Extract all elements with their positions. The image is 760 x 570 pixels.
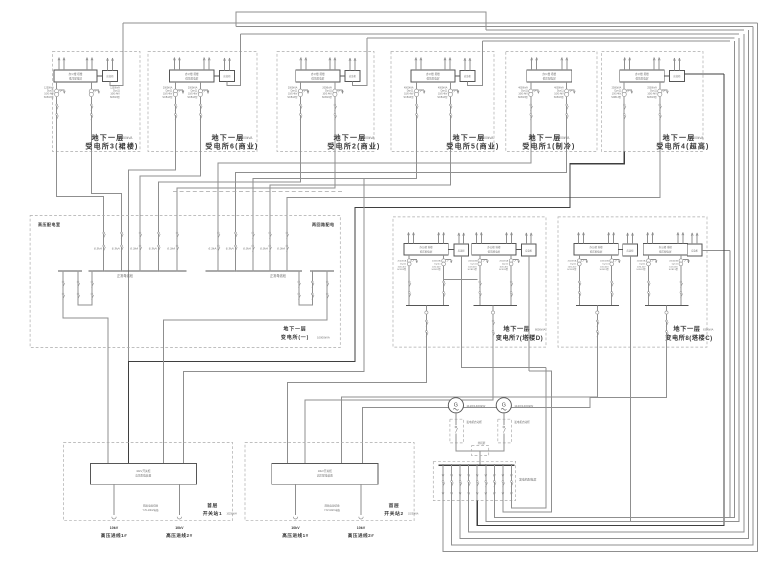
svg-text:2000kVA: 2000kVA [637,260,646,263]
HV room right label [312,221,335,227]
svg-text:SCB13型: SCB13型 [322,95,333,99]
generator G1 [448,398,463,413]
feeder breaker 6.3kA [260,232,271,272]
wire cable from substation to HV feeder [218,152,531,233]
LV bus [576,304,619,306]
generator G2 starter cabinet [498,413,512,443]
feeder arrows of panel U1 [58,58,93,71]
svg-text:10/0.4kV: 10/0.4kV [398,266,407,268]
transformer spec label [669,260,679,272]
incomer riser to bus1 stub [62,270,108,463]
incoming line label 1 [282,526,309,539]
transformer T6b spec label [647,87,658,99]
svg-text:10250kVA: 10250kVA [408,513,419,516]
substation box 2 dashed outline [148,52,257,152]
svg-text:YJV-10kV电缆: YJV-10kV电缆 [143,508,159,512]
riser substation8 bus1 to switch station2 [342,305,600,463]
generator feeder breaker [442,464,445,500]
HV riser wire with isolators box 6 [659,97,662,152]
wire generator feeder loop d2 tie [452,27,753,546]
generator feeder breaker [485,464,488,500]
HV riser wire with isolators box 6 [623,97,626,152]
svg-text:办公楼 塔楼: 办公楼 塔楼 [426,72,440,76]
svg-text:Dyn11: Dyn11 [400,263,407,265]
transformer spec label [468,260,478,272]
generator feeder breaker [468,464,471,500]
feeder breaker 6.3kA [130,232,141,272]
svg-text:低压配电屏: 低压配电屏 [185,76,198,80]
feeder arrows of panel U4 [415,58,451,71]
wire panel to emergency cabinet [455,75,460,77]
wire top feed tie b [486,29,744,31]
svg-text:G: G [454,402,458,408]
svg-text:Dyn11: Dyn11 [639,263,646,265]
transformer T3a spec label [287,87,298,99]
substation 2 name label [205,133,258,151]
emergency cabinet arrows [458,233,465,244]
transformer [679,255,690,305]
generator feeder breaker [493,464,496,500]
generator feeder breaker [451,464,454,500]
emergency cabinet arrows [525,233,532,244]
switch station 2 name label [384,502,419,517]
wire emergency feed substation7 cabinet2 [528,256,530,371]
LV panel rect [404,243,448,255]
svg-text:10kV: 10kV [357,526,366,530]
svg-text:1250kVA: 1250kVA [120,136,134,140]
wire generator feeder loop d7 to box4 [494,41,734,518]
svg-text:受电所6(商业): 受电所6(商业) [205,142,258,151]
svg-text:受电所2(商业): 受电所2(商业) [327,142,380,151]
svg-text:低压配电屏: 低压配电屏 [635,76,648,80]
svg-text:办公楼 塔楼: 办公楼 塔楼 [311,72,325,76]
svg-text:两回路配电: 两回路配电 [312,221,335,227]
svg-text:6.3kA: 6.3kA [243,247,251,251]
svg-text:并机屏: 并机屏 [478,441,486,445]
transformer T6a [622,82,633,97]
HV riser wire with isolators box 1 [90,97,93,152]
svg-text:高压配电装置: 高压配电装置 [135,474,151,478]
svg-text:受电所1(制冷): 受电所1(制冷) [522,142,575,151]
svg-text:办公楼 塔楼: 办公楼 塔楼 [635,72,649,76]
bus section 2 main [206,270,303,272]
substation 1 name label [85,133,138,151]
transformer T2b [198,82,209,97]
switch station 1 name label [203,502,238,517]
transformer T5b [565,82,576,97]
svg-text:变电所7(塔楼D): 变电所7(塔楼D) [496,334,543,342]
svg-text:正常母线段: 正常母线段 [117,273,134,278]
svg-text:SCB13型: SCB13型 [611,95,622,99]
HV riser wire with isolators box 1 [56,97,59,152]
generator G1 starter cabinet [450,413,464,443]
svg-text:Dyn11: Dyn11 [471,263,478,265]
transformer spec label [600,260,610,272]
wire panel-cabinet [618,249,623,251]
svg-text:SCB13型: SCB13型 [287,95,298,99]
panel arrows [475,232,512,243]
svg-text:10/0.4kV: 10/0.4kV [468,266,477,268]
svg-text:10/0.4kV: 10/0.4kV [669,266,678,268]
svg-text:地下一层: 地下一层 [283,326,306,333]
wire cable from substation to HV feeder [57,152,104,233]
LV distribution panel U2 [169,70,214,82]
svg-text:10000kVA: 10000kVA [317,336,330,340]
wire top feed to box4 [483,40,730,42]
svg-text:受电所4(超高): 受电所4(超高) [656,142,709,151]
wire from substation box2 to switch station 1 [129,152,176,362]
substation 8 name label [665,325,713,342]
bus section 2 right stub [310,270,334,272]
svg-text:办公楼 塔楼: 办公楼 塔楼 [185,72,199,76]
switch station 1 inner note [143,504,159,513]
generator G1 rating label [466,404,485,408]
generator feeder breaker [510,464,513,500]
svg-text:YJV-10kV电缆: YJV-10kV电缆 [324,508,340,512]
svg-text:SCB13型: SCB13型 [187,95,198,99]
svg-text:2000kVA: 2000kVA [568,260,577,263]
incoming cable with terminator [293,484,297,519]
generator G1 starter label [466,420,482,424]
transformer [478,255,489,305]
wire bold generator feeder d5 to substation6 [477,74,724,526]
svg-text:地下一层: 地下一层 [673,325,700,333]
svg-text:6.3kA: 6.3kA [167,247,175,251]
incomer riser to bus2 stub [164,270,329,463]
wire top feed tie a [236,26,753,28]
transformer T3b spec label [322,87,333,99]
wire emergency feed substation7 cabinet1 [444,256,546,367]
wire riser substation8 cabinet2 feed [729,251,731,518]
transformer spec label [636,260,646,272]
svg-text:10/0.4kV: 10/0.4kV [432,266,441,268]
switch station 2 inner note [324,504,340,513]
svg-text:2000kVA: 2000kVA [240,136,254,140]
svg-text:10/0.4kV: 10/0.4kV [568,266,577,268]
transformer T3a [298,82,309,97]
svg-text:正常母线段: 正常母线段 [270,273,287,278]
svg-text:应急柜: 应急柜 [223,74,231,78]
HV riser wire with isolators box 2 [175,97,178,152]
transformer T2b spec label [187,87,198,99]
switch station 2 10kV switchgear rect [272,464,378,485]
emergency cabinet arrows box 6 [673,58,680,71]
generator distribution panel dashed outline [433,461,515,500]
svg-text:6.3kA: 6.3kA [94,247,102,251]
feeder arrows of panel U5 [531,58,568,71]
svg-text:首层: 首层 [389,502,400,509]
substation 7 name label [496,325,546,342]
feeder arrows of panel U2 [173,58,210,71]
HV riser wire with isolators box 3 [300,97,303,152]
svg-text:两路电源切换: 两路电源切换 [143,504,159,508]
svg-text:低压配电屏: 低压配电屏 [590,249,603,253]
wire generator feeder loop d6 to box3 [486,38,739,522]
svg-text:10kV: 10kV [175,526,184,530]
wire emergency feed to cabinet [227,34,241,85]
svg-text:高压进线2#: 高压进线2# [348,532,375,539]
svg-text:低压配电屏: 低压配电屏 [420,249,433,253]
feeder breaker 6.3kA [243,232,254,272]
panel arrows [647,232,684,243]
feeder breaker 6.3kA [226,232,237,272]
svg-text:高压配电装置: 高压配电装置 [317,474,333,478]
transformer spec label [431,260,441,272]
svg-text:高压进线1#: 高压进线1# [101,532,128,539]
svg-text:变电所8(塔楼C): 变电所8(塔楼C) [665,334,712,342]
generator G2 rating label [514,404,533,408]
incoming line label 2 [166,526,193,539]
wire emergency feed to cabinet [353,38,367,85]
svg-text:SCB13型: SCB13型 [162,95,173,99]
svg-text:发电机启动柜: 发电机启动柜 [514,420,530,424]
svg-text:6300kVA: 6300kVA [703,328,714,332]
substation 4 name label [446,133,499,151]
wire top feed to box1 [123,22,757,24]
bus tie coupling left [77,270,94,305]
svg-text:2000kVA: 2000kVA [600,260,609,263]
LV bus [474,304,517,306]
panel arrows [407,232,444,243]
svg-text:10/0.4kV: 10/0.4kV [499,266,508,268]
transformer [442,255,453,305]
emergency cabinet arrows box 4 [464,58,471,71]
svg-text:10kV开关柜: 10kV开关柜 [318,469,333,473]
svg-text:办公楼 塔楼: 办公楼 塔楼 [659,245,673,249]
svg-text:SCB13型: SCB13型 [518,95,529,99]
svg-text:SCB13型: SCB13型 [647,95,658,99]
transformer T1a spec label [44,87,55,99]
HV riser wire with isolators box 3 [334,97,337,152]
panel arrows [577,232,614,243]
riser substation8 bus2 to switch station2 [363,305,669,463]
emergency cabinet arrows [691,233,698,244]
feeder breaker 6.3kA [94,232,105,272]
generator G2 starter label [514,420,530,424]
svg-text:2000kVA: 2000kVA [362,136,376,140]
riser substation7 bus1 to switch station2 [288,305,429,463]
svg-text:高压进线2#: 高压进线2# [166,532,193,539]
svg-text:Dyn11: Dyn11 [570,263,577,265]
generator panel label [519,477,536,482]
transformer T5b spec label [554,87,565,99]
substation box 3 dashed outline [277,52,374,152]
HV riser wire with isolators box 2 [200,97,203,152]
svg-text:4000kVA: 4000kVA [481,136,495,140]
substation box 1 dashed outline [53,52,141,152]
transformer T1b [89,82,100,97]
paralleling panel [472,441,489,456]
LV panel rect [574,243,618,255]
svg-text:4000kVA: 4000kVA [557,136,571,140]
wire generator feeder loop d4 to box2 [469,34,744,532]
transformer T6a spec label [611,87,622,99]
wire panel to emergency cabinet [97,75,103,77]
LV panel rect [472,243,516,255]
svg-text:发电机配电屏: 发电机配电屏 [519,477,536,482]
LV distribution panel U3 [296,70,340,82]
wire panel to emergency cabinet [214,75,219,77]
emergency cabinet box 4 [460,71,475,82]
substation 7 dashed outline [393,217,546,347]
emergency cabinet [687,244,702,256]
transformer T4a spec label [404,87,415,99]
emergency cabinet box 2 [220,71,235,82]
wire cable from substation to HV feeder [287,152,660,233]
emergency cabinet box 3 [345,71,360,82]
generator feeder breaker [502,464,505,500]
emergency cabinet [521,244,536,256]
transformer [407,255,417,305]
incoming line label 1 [101,526,128,539]
wire reserved tie dashed [173,191,343,193]
switch station 1 dashed outline [64,443,233,521]
svg-text:办公楼 塔楼: 办公楼 塔楼 [419,245,433,249]
emergency cabinet arrows box 1 [106,58,113,71]
transformer T5a spec label [518,87,529,99]
substation 5 name label [522,133,575,151]
transformer T4a [414,82,425,97]
svg-text:发电机启动柜: 发电机启动柜 [466,420,482,424]
wire generator feeder loop d3 tie [460,30,748,539]
svg-text:高压配电室: 高压配电室 [38,221,61,227]
wire panel-cabinet [516,249,521,251]
feeder arrows of panel U3 [300,58,336,71]
svg-text:8000kVA: 8000kVA [535,328,546,332]
transformer T1b spec label [110,87,121,99]
wire cable from substation to HV feeder [177,152,335,233]
svg-text:10/0.4kV: 10/0.4kV [600,266,609,268]
transformer T6b [658,82,669,97]
wire top feed to box3 [367,37,735,39]
svg-text:低压配电屏: 低压配电屏 [311,76,324,80]
HV riser wire with isolators box 4 [416,97,419,152]
svg-text:SCB13型: SCB13型 [404,95,415,99]
svg-text:办公楼 塔楼: 办公楼 塔楼 [589,245,603,249]
svg-text:Dyn11: Dyn11 [672,263,679,265]
LV bus [406,304,449,306]
svg-text:1120/1400kW: 1120/1400kW [466,404,485,408]
LV distribution panel U1 [54,70,97,82]
generator main bus [438,464,514,466]
svg-text:低压配电屏: 低压配电屏 [488,249,501,253]
HV room title label [38,221,61,227]
svg-text:受电所5(商业): 受电所5(商业) [446,142,499,151]
svg-text:低压配电屏: 低压配电屏 [69,76,82,80]
svg-text:办公楼 塔楼: 办公楼 塔楼 [69,72,83,76]
svg-text:低压配电屏: 低压配电屏 [659,249,672,253]
LV distribution panel U4 [411,70,455,82]
svg-text:2000kVA: 2000kVA [499,260,508,263]
transformer T3b [333,82,344,97]
transformer T4b [448,82,459,97]
svg-text:6.3kA: 6.3kA [130,247,138,251]
svg-text:6.3kA: 6.3kA [149,247,157,251]
svg-text:应急柜: 应急柜 [349,74,357,78]
svg-text:变电所(一): 变电所(一) [281,334,309,341]
wire top tie line [236,12,486,30]
wire cable from substation to HV feeder [270,152,451,233]
bus tie coupling right [298,270,314,305]
HV riser wire with isolators box 4 [450,97,453,152]
svg-text:2000kVA: 2000kVA [468,260,477,263]
svg-text:2000kVA: 2000kVA [669,260,678,263]
svg-text:10kV开关柜: 10kV开关柜 [136,469,151,473]
wire emergency feed to box6 cabinet (bold) [684,73,724,75]
wire emergency feed substation8 cabinet1 [629,256,631,521]
emergency cabinet [623,244,638,256]
emergency cabinet [454,244,469,256]
LV distribution panel U6 [620,70,665,82]
transformer [509,255,520,305]
transformer T5a [529,82,540,97]
svg-text:地下一层: 地下一层 [503,325,530,333]
incoming line label 2 [348,526,375,539]
svg-text:低压配电屏: 低压配电屏 [543,76,556,80]
wire generator feeder d8 loop to substation7 cabinet2 [503,371,552,512]
emergency cabinet arrows [627,233,634,244]
HV riser wire with isolators box 5 [566,97,569,152]
svg-text:SCB13型: SCB13型 [44,95,55,99]
svg-text:G: G [502,402,506,408]
feeder breaker 6.3kA [149,232,160,272]
LV bus [645,304,688,306]
svg-text:SCB13型: SCB13型 [437,95,448,99]
svg-text:应急柜: 应急柜 [106,74,114,78]
feeder breaker 6.3kA [277,232,288,272]
transformer T2a [173,82,184,97]
emergency cabinet box 6 [669,71,684,82]
svg-text:高压进线1#: 高压进线1# [282,532,309,539]
svg-text:办公楼 塔楼: 办公楼 塔楼 [487,245,501,249]
transformer [577,255,588,305]
generator feeder breaker [476,464,479,500]
incoming cable with terminator [359,484,363,519]
wire panel to emergency cabinet [340,75,345,77]
svg-text:SCB13型: SCB13型 [110,95,121,99]
svg-text:10kV: 10kV [291,526,300,530]
svg-text:10kV: 10kV [110,526,119,530]
substation box 5 dashed outline [506,52,597,152]
wire generator feeder loop d1 to box1 [443,23,757,552]
svg-text:首层: 首层 [207,502,218,509]
svg-text:10250kVA: 10250kVA [227,513,238,516]
transformer [610,255,621,305]
emergency cabinet arrows box 3 [349,58,356,71]
wire top feed to box2 [241,33,740,35]
svg-text:开关站1: 开关站1 [203,510,222,517]
bus 2 label [270,273,287,278]
transformer spec label [567,260,577,272]
svg-text:Dyn11: Dyn11 [502,263,509,265]
transformer T2a spec label [162,87,173,99]
feeder arrows of panel U6 [624,58,661,71]
svg-text:6.3kA: 6.3kA [277,247,285,251]
riser substation7 bus2 to switch station2 [305,305,495,463]
HV room name label [281,326,330,341]
substation 8 dashed outline [558,217,707,347]
feeder breaker 6.3kA [112,232,123,272]
svg-text:2000kVA: 2000kVA [432,260,441,263]
bus 1 label [117,273,134,278]
svg-text:10/0.4kV: 10/0.4kV [637,266,646,268]
bus section 1 left stub [58,270,82,272]
wire cable from substation to HV feeder [91,152,121,233]
wire emergency feed to cabinet [467,41,482,85]
substation 6 name label [656,133,709,151]
incoming cable with terminator [112,484,116,519]
wire emergency feed substation8 cabinet2 [702,250,730,252]
